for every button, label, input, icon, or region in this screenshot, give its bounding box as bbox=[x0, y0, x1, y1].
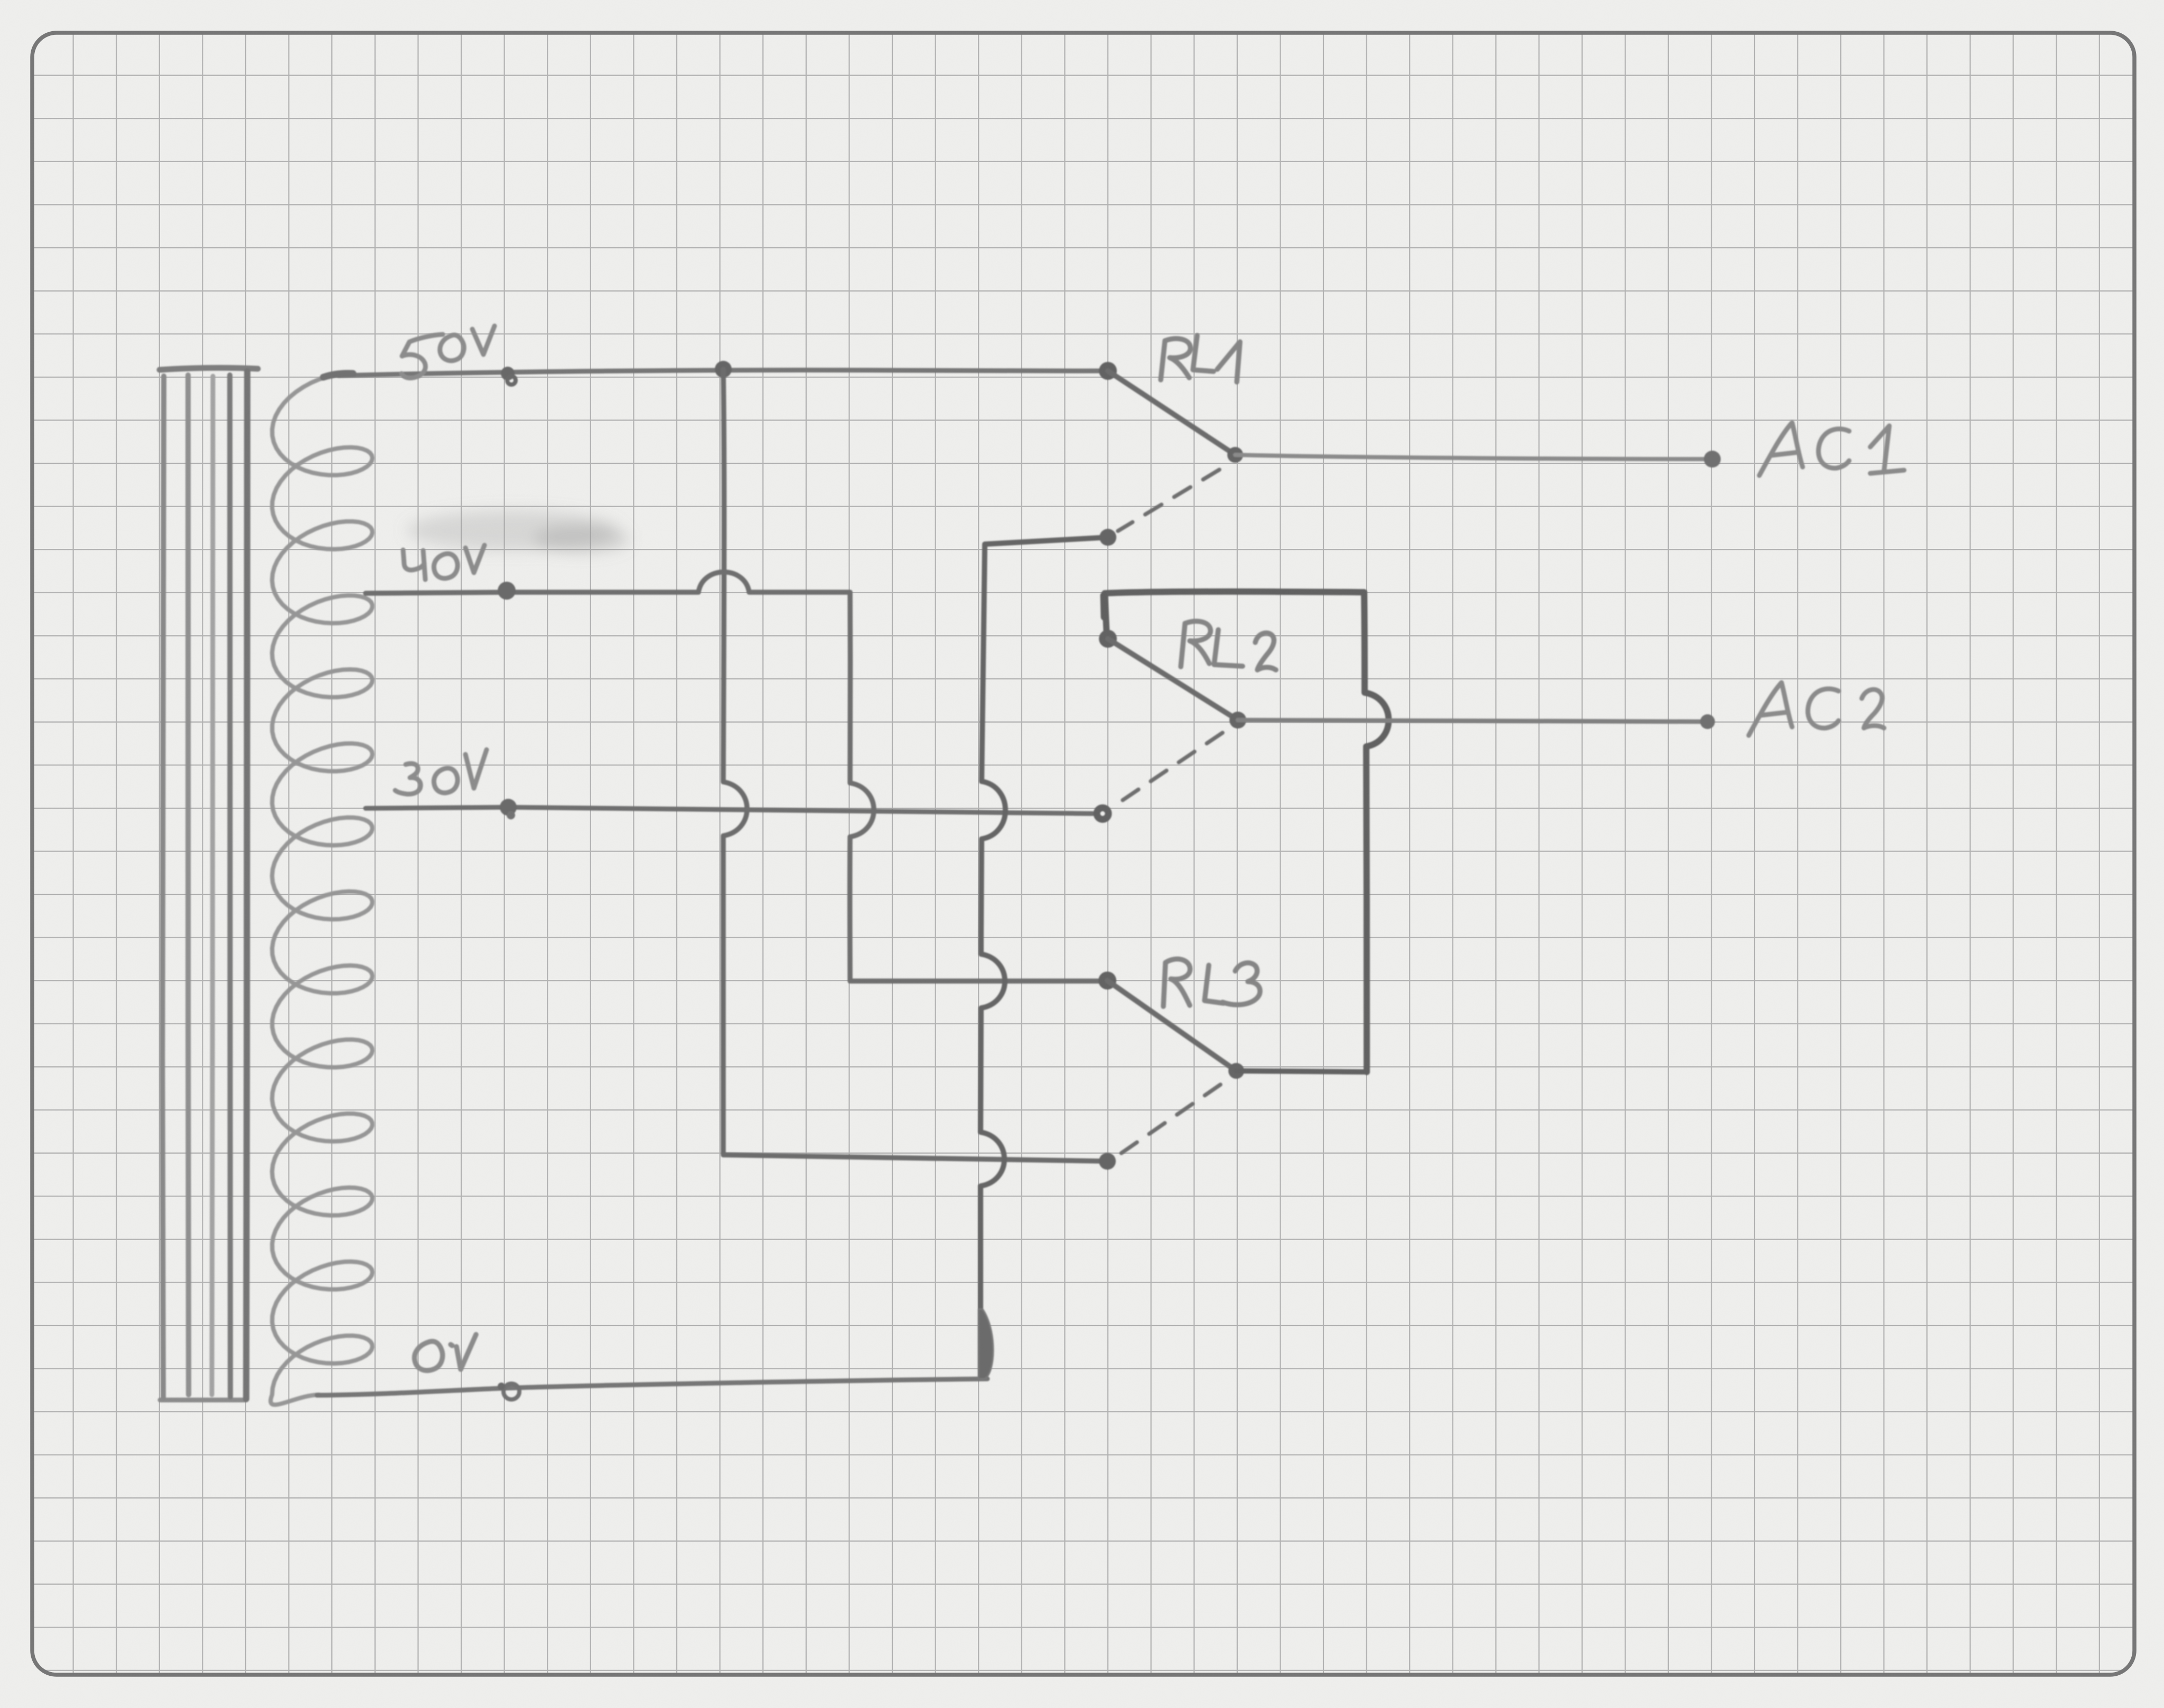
terminal 30V bbox=[500, 799, 517, 819]
wire 30V tap bbox=[366, 807, 1093, 814]
label 30V bbox=[395, 750, 487, 794]
wire RL2 box corner stub bbox=[1104, 595, 1104, 617]
relay RL3 pole bbox=[1098, 972, 1116, 990]
wire 40V tap bbox=[366, 572, 1106, 981]
relay RL2 pole bbox=[1099, 630, 1117, 648]
terminal 50V bbox=[501, 367, 516, 385]
relay RL1 NO contact bbox=[1227, 447, 1243, 463]
wire RL1 NC to 0V bbox=[980, 537, 1108, 1377]
relay RL2 NO contact bbox=[1229, 712, 1246, 729]
relay RL3 NC contact bbox=[1099, 1153, 1116, 1170]
junction RL1-NC/0V blob bbox=[978, 1309, 993, 1379]
terminal 40V bbox=[498, 582, 516, 600]
relay RL2 NC contact bbox=[1097, 808, 1108, 819]
wire 50V coil joint bbox=[323, 374, 353, 377]
wire AC2 bbox=[1238, 720, 1708, 722]
relay RL3 arm bbox=[1107, 981, 1236, 1071]
wire RL3 NO to RL2 box bbox=[1236, 1071, 1367, 1072]
relay RL3 dashed NC throw bbox=[1121, 1085, 1220, 1153]
relay RL1 pole bbox=[1099, 362, 1117, 380]
wire RL2 pole to RL3 NO (box) bbox=[1105, 592, 1388, 1072]
wire AC1 bbox=[1235, 455, 1712, 459]
transformer T1 core bbox=[160, 368, 258, 1400]
label AC1 bbox=[1759, 423, 1904, 475]
terminal 0V bbox=[503, 1384, 519, 1399]
wire 0V tap bbox=[317, 1379, 987, 1395]
relay RL2 dashed NC throw bbox=[1117, 733, 1223, 804]
junction 50V/RL3 feed bbox=[715, 361, 732, 378]
relay RL1 NC contact bbox=[1099, 529, 1116, 546]
transformer T1 winding bbox=[270, 374, 372, 1405]
label AC2 bbox=[1749, 683, 1884, 735]
wire 50V junction down to RL3 NC bbox=[723, 369, 1107, 1161]
label 0V bbox=[415, 1334, 476, 1370]
relay RL1 dashed NC throw bbox=[1118, 470, 1219, 531]
label RL3 bbox=[1163, 959, 1260, 1006]
wire 50V tap bbox=[338, 370, 1107, 376]
relay RL2 arm bbox=[1108, 639, 1238, 720]
relay RL1 arm bbox=[1108, 371, 1235, 455]
label RL2 bbox=[1181, 621, 1276, 670]
label 40V bbox=[403, 545, 484, 580]
relay RL3 NO contact bbox=[1228, 1063, 1244, 1079]
terminal AC2 bbox=[1700, 714, 1715, 729]
label 50V bbox=[402, 326, 495, 378]
terminal AC1 bbox=[1704, 451, 1721, 468]
label RL1 bbox=[1161, 335, 1240, 382]
